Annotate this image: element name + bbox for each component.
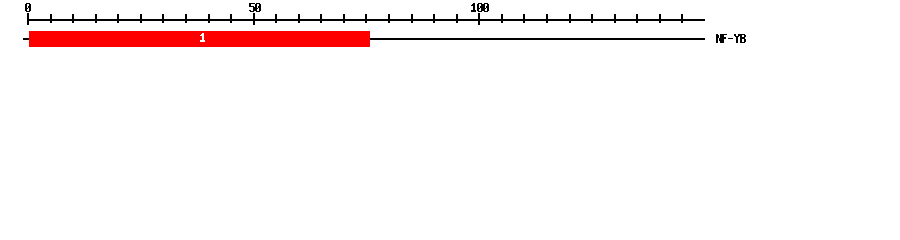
ruler ticks (27, 13, 683, 25)
ruler line (28, 19, 705, 21)
ruler label 0 (25, 3, 31, 12)
ruler label 50 (249, 3, 261, 12)
sequence backbone line (23, 38, 705, 40)
protein name NF-YB (716, 34, 746, 43)
background (0, 0, 900, 58)
ruler label 100 (471, 3, 489, 12)
domain bar label 1 (200, 33, 205, 42)
domain bar 1 (29, 31, 370, 47)
